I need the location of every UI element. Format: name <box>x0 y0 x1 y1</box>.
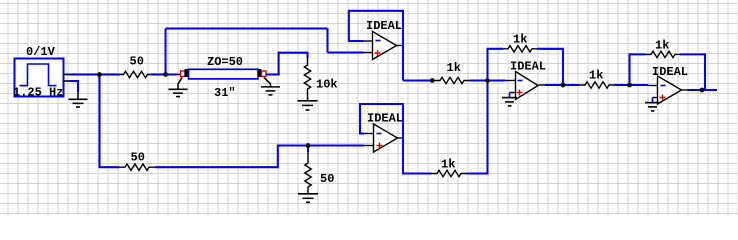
pin U4 minus stub <box>649 85 658 87</box>
svg-text:1k: 1k <box>447 61 461 75</box>
wire U4 plus to ground <box>652 98 654 103</box>
svg-text:1k: 1k <box>513 33 527 47</box>
pin U1 plus stub <box>364 52 373 54</box>
pin U4 plus ground stub <box>653 97 658 99</box>
op-amp U4 feedback wire up <box>630 54 647 85</box>
svg-text:1k: 1k <box>441 158 455 172</box>
ground at source <box>69 92 88 107</box>
op-amp U3 feedback wire <box>488 49 504 81</box>
svg-text:31": 31" <box>214 86 236 100</box>
wire top route horizontal <box>166 27 328 29</box>
resistor R7 1k (U3 feedback) <box>503 46 537 52</box>
pin V1 plus <box>64 74 71 76</box>
resistor R4 50 (bottom) <box>119 164 155 170</box>
wire R3 to summing node <box>470 79 488 81</box>
ground at U3 plus <box>502 98 517 106</box>
wire into op-amp U1 plus <box>328 51 364 53</box>
wire R4 to op-amp U2 plus <box>155 146 364 168</box>
node R3 input <box>430 78 435 83</box>
op-amp U1 feedback wire <box>349 11 403 81</box>
resistor R2 10k (vertical) <box>304 58 310 97</box>
ground at 10k <box>298 97 318 110</box>
pin V1 minus <box>64 80 71 82</box>
wire R8 to U4 input node <box>615 84 649 86</box>
pin U2 plus stub <box>364 145 374 147</box>
resistor R6 1k (bottom) <box>431 170 466 176</box>
wire U4 output <box>688 89 718 91</box>
resistor R8 1k <box>579 82 615 88</box>
pin U1 minus stub <box>364 40 373 42</box>
svg-text:50: 50 <box>320 172 334 186</box>
wire R9 down to U4 output <box>680 54 705 90</box>
op-amp U2 <box>374 124 398 152</box>
pin TL input stub <box>177 74 181 76</box>
svg-text:IDEAL: IDEAL <box>652 65 688 79</box>
ground at TL input <box>169 78 188 97</box>
resistor R5 50 (vertical) <box>305 152 311 194</box>
pulse source V1 box <box>15 59 64 97</box>
wire U2 output down to R6 <box>403 138 431 174</box>
node U4 input <box>627 83 632 88</box>
ground at TL output <box>261 78 280 95</box>
wire R1 to TL input <box>151 73 177 75</box>
transmission line W1 <box>181 69 267 79</box>
wire V1 minus to ground <box>69 81 78 92</box>
svg-text:1k: 1k <box>589 69 603 83</box>
svg-text:10k: 10k <box>316 78 338 92</box>
wire R7 to U3 output <box>537 49 563 85</box>
wire U1 output to R3 <box>403 79 432 81</box>
op-amp U3 <box>516 72 539 100</box>
wire junction to R5 <box>307 146 309 153</box>
pin U1 output stub <box>397 45 404 47</box>
wire top route down <box>326 29 328 53</box>
node summing junction <box>485 78 490 83</box>
pin U2 minus stub <box>364 133 374 135</box>
node 50 shunt junction <box>306 143 311 148</box>
wire U3 plus to ground <box>509 93 511 98</box>
wire source output rail <box>69 73 120 75</box>
node TL input junction <box>163 72 168 77</box>
pin U3 minus stub <box>506 80 516 82</box>
svg-text:ZO=50: ZO=50 <box>207 55 243 69</box>
resistor R9 1k (U4 feedback) <box>646 51 680 57</box>
svg-text:IDEAL: IDEAL <box>510 60 546 74</box>
wire U3 output rail <box>545 84 579 86</box>
svg-text:1k: 1k <box>655 39 669 53</box>
pin U3 output stub <box>539 84 546 86</box>
svg-text:IDEAL: IDEAL <box>366 19 402 33</box>
svg-text:50: 50 <box>131 151 145 165</box>
op-amp U4 <box>658 76 682 104</box>
ground at U4 plus <box>645 103 660 111</box>
ground at R5 <box>298 194 318 203</box>
wire R6 riser to summing node <box>466 81 488 174</box>
pin U4 output stub <box>682 89 688 91</box>
pin U2 output stub <box>398 137 404 139</box>
svg-text:50: 50 <box>130 55 144 69</box>
op-amp U2 feedback wire <box>360 104 403 138</box>
resistor R3 1k <box>432 77 470 83</box>
node after source <box>97 72 102 77</box>
svg-text:0/1V: 0/1V <box>26 45 56 59</box>
node U3 output <box>561 83 566 88</box>
node U4 output <box>700 88 705 93</box>
wire riser to top route <box>164 29 166 75</box>
svg-text:IDEAL: IDEAL <box>367 112 403 126</box>
pin U3 plus ground stub <box>510 92 516 94</box>
wire TL output to 10k <box>266 53 308 75</box>
wire bottom branch from source <box>100 75 120 168</box>
wire summing node to U3 minus <box>488 79 506 81</box>
resistor R1 50 (top) <box>120 71 151 77</box>
op-amp U1 <box>373 32 397 60</box>
svg-text:1.25 Hz: 1.25 Hz <box>13 86 63 100</box>
